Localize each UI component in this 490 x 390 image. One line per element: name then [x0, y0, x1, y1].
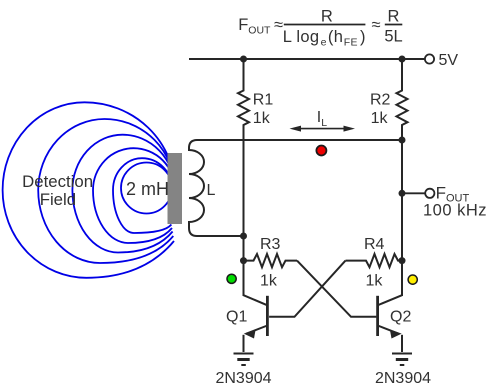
formula: FOUT = R / (L log_e(hFE)) = R / 5L: [238, 8, 402, 49]
node indicator: yellow dot: [408, 275, 417, 284]
arrow: IL bidirectional: [290, 126, 356, 132]
svg-text:R: R: [321, 8, 333, 26]
transistor Q2: [378, 295, 402, 352]
svg-text:≈: ≈: [372, 16, 381, 34]
svg-text:1k: 1k: [371, 110, 389, 127]
node indicator: red dot: [316, 146, 326, 156]
field line 5: [113, 158, 173, 233]
svg-text:Q2: Q2: [390, 309, 411, 326]
resistor R2: [397, 59, 408, 140]
svg-text:1k: 1k: [260, 272, 278, 289]
field line 3: [72, 135, 175, 253]
svg-text:5L: 5L: [384, 28, 402, 46]
junction: F_OUT tap: [399, 190, 406, 197]
svg-text:5V: 5V: [439, 52, 459, 69]
inductor core: [168, 153, 183, 224]
svg-text:Field: Field: [40, 190, 76, 209]
svg-text:R2: R2: [370, 91, 391, 108]
svg-text:1k: 1k: [366, 272, 384, 289]
field line 1: [3, 102, 175, 277]
transistor Q1: [244, 295, 268, 352]
field line 6: [121, 163, 172, 214]
junction: rail / R2: [399, 56, 406, 63]
wire: cross-couple R4 to Q1 base: [269, 261, 345, 317]
ground (Q2 emitter): [392, 354, 412, 366]
terminal: F_OUT: [425, 189, 434, 198]
svg-text:2N3904: 2N3904: [375, 370, 431, 387]
svg-text:Detection: Detection: [22, 172, 93, 191]
field line 2: [38, 119, 175, 263]
svg-text:2N3904: 2N3904: [215, 370, 271, 387]
junction: R3 left node: [240, 257, 247, 264]
wire: top supply rail: [189, 58, 425, 60]
svg-text:L: L: [207, 182, 216, 199]
wire: cross-couple R3 to Q2 base: [297, 261, 376, 317]
junction: L bottom / Q1 collector node: [240, 233, 247, 240]
svg-text:R4: R4: [364, 236, 385, 253]
resistor R1: [238, 59, 249, 140]
junction: R4 right node: [399, 257, 406, 264]
svg-text:100 kHz: 100 kHz: [423, 202, 487, 220]
ground (Q1 emitter): [234, 354, 254, 366]
junction: L top / R2 bottom: [399, 137, 406, 144]
wire: R1 bottom to Q1 collector column: [243, 140, 245, 296]
svg-text:R: R: [387, 8, 399, 26]
terminal: 5V: [425, 54, 434, 63]
svg-text:Q1: Q1: [226, 309, 247, 326]
inductor L (coil and top/bottom leads): [189, 140, 402, 236]
svg-text:1k: 1k: [253, 110, 271, 127]
wire: F_OUT tap to terminal: [402, 192, 425, 194]
svg-text:R1: R1: [253, 91, 274, 108]
svg-text:R3: R3: [260, 236, 281, 253]
node indicator: green dot: [227, 274, 236, 283]
resistor R4: [346, 254, 403, 267]
wire: R2 bottom to Q2 collector column: [401, 140, 403, 296]
junction: rail / R1: [240, 56, 247, 63]
field line 4: [93, 148, 175, 243]
svg-text:2 mH: 2 mH: [126, 179, 169, 199]
resistor R3: [244, 254, 298, 267]
